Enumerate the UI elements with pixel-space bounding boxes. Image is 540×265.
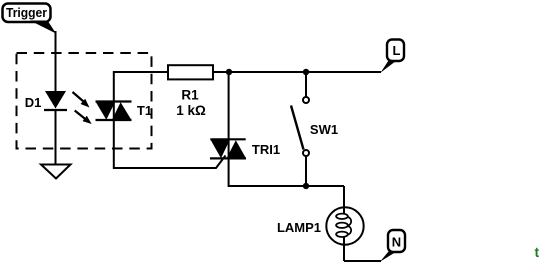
svg-text:L: L [393, 43, 401, 58]
label Trigger callout box [3, 4, 57, 34]
node junction SW1 top [303, 69, 309, 75]
wire TRI1 to bottom rail [229, 158, 344, 186]
svg-text:t: t [535, 244, 540, 260]
label N callout [380, 230, 405, 262]
triac TRI1 [210, 139, 280, 159]
light emission arrows [73, 92, 92, 124]
svg-text:LAMP1: LAMP1 [277, 220, 321, 235]
lamp LAMP1 [277, 206, 364, 261]
wire T1 top to R1 [114, 72, 168, 102]
wire junction to TRI1 [228, 72, 230, 140]
svg-text:TRI1: TRI1 [252, 142, 280, 157]
ground [41, 165, 71, 179]
svg-text:R1: R1 [181, 88, 199, 103]
svg-text:1 kΩ: 1 kΩ [176, 103, 206, 118]
diode D1 (LED) [25, 91, 67, 110]
svg-text:T1: T1 [137, 103, 152, 118]
wire rail to lamp [343, 186, 345, 206]
wire R1 to L [213, 71, 381, 73]
optocoupler dashed box [17, 53, 152, 149]
svg-text:SW1: SW1 [310, 122, 338, 137]
svg-text:Trigger: Trigger [6, 5, 47, 20]
node junction SW1 bottom [303, 183, 309, 189]
svg-text:N: N [392, 235, 401, 250]
wire lamp to N [344, 260, 381, 262]
wire T1 bottom to TRI1 gate [114, 120, 226, 168]
wire D1 to ground [55, 110, 57, 164]
opto-triac T1 [96, 101, 153, 121]
svg-text:D1: D1 [25, 95, 42, 110]
switch SW1 [291, 72, 338, 186]
resistor R1 [168, 65, 213, 118]
label L callout [381, 40, 405, 73]
wire trigger to D1 [55, 31, 57, 91]
node junction R1/TRI1 [226, 69, 232, 75]
